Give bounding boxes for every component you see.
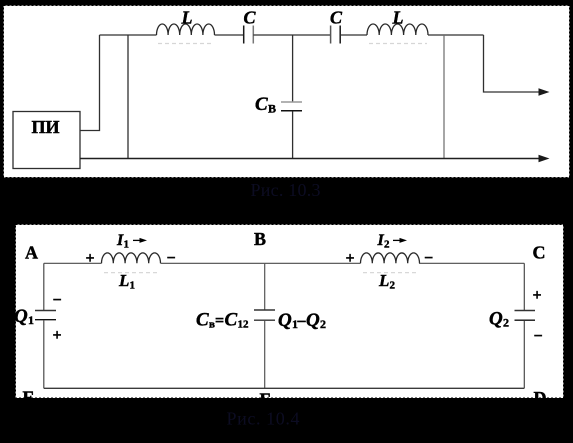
- wire: [340, 34, 367, 36]
- loop top wire left of L1: [44, 262, 102, 264]
- ghost dashes under L (first): [158, 43, 214, 45]
- arrowhead lower output: [539, 155, 550, 162]
- svg-text:C: C: [533, 243, 546, 263]
- loop left wire lower: [43, 320, 45, 388]
- svg-text:A: A: [25, 243, 38, 263]
- svg-text:Q: Q: [306, 310, 320, 331]
- svg-text:Рис. 10.4: Рис. 10.4: [227, 409, 300, 429]
- output upper wire: [484, 35, 541, 92]
- svg-text:2: 2: [503, 316, 509, 330]
- svg-text:Q: Q: [489, 309, 503, 330]
- left shunt wire: [127, 35, 129, 159]
- svg-text:12: 12: [238, 319, 250, 331]
- inductor L1: [102, 253, 161, 263]
- svg-text:–: –: [297, 312, 307, 329]
- loop right wire lower: [523, 321, 525, 389]
- loop right wire upper: [523, 263, 525, 310]
- capacitor C (second): [330, 26, 332, 44]
- svg-text:Q: Q: [278, 310, 292, 331]
- svg-text:+: +: [52, 327, 61, 344]
- current I2 arrow: [393, 239, 403, 241]
- svg-text:ПИ: ПИ: [31, 117, 59, 137]
- svg-text:1: 1: [124, 239, 130, 251]
- top rail left segment: [100, 34, 157, 36]
- capacitor Q2 plates: [515, 310, 536, 312]
- figure 10.3 canvas: [4, 6, 570, 178]
- svg-text:=: =: [215, 313, 224, 330]
- svg-text:+: +: [345, 250, 354, 267]
- middle wire lower: [264, 321, 266, 389]
- capacitor Q1 plates: [35, 310, 56, 312]
- svg-text:C: C: [196, 310, 209, 331]
- svg-text:F: F: [260, 390, 271, 410]
- svg-text:2: 2: [320, 317, 326, 331]
- svg-text:L: L: [118, 271, 129, 290]
- node junction wire down to Cв: [292, 35, 294, 102]
- svg-text:2: 2: [384, 239, 390, 251]
- svg-text:L: L: [181, 8, 193, 28]
- loop top wire L1 to B: [161, 262, 265, 264]
- box ПИ: [13, 112, 80, 169]
- svg-text:C: C: [225, 310, 238, 331]
- svg-text:В: В: [268, 102, 276, 116]
- svg-text:−: −: [52, 292, 61, 309]
- svg-text:2: 2: [390, 280, 396, 292]
- svg-text:E: E: [22, 388, 34, 408]
- capacitor C (first): [243, 26, 245, 44]
- svg-text:−: −: [166, 250, 175, 267]
- svg-text:C: C: [243, 8, 256, 28]
- svg-text:L: L: [378, 271, 389, 290]
- inductor L (second): [367, 24, 428, 35]
- ghost dashes under L2: [363, 272, 417, 274]
- svg-text:C: C: [255, 94, 268, 115]
- current I1 arrow: [133, 239, 143, 241]
- ghost dashes under L (second): [369, 43, 427, 45]
- svg-text:−: −: [533, 328, 542, 345]
- svg-text:B: B: [254, 229, 266, 249]
- loop top wire B to L2: [265, 262, 361, 264]
- svg-text:1: 1: [130, 280, 136, 292]
- svg-text:L: L: [392, 8, 404, 28]
- wire: [215, 34, 244, 36]
- svg-text:+: +: [532, 287, 541, 304]
- right shunt wire: [443, 35, 445, 159]
- loop bottom wire: [44, 387, 525, 389]
- top rail right segment: [428, 34, 484, 36]
- svg-text:+: +: [85, 250, 94, 267]
- svg-text:−: −: [424, 250, 433, 267]
- wire from ПИ to top rail: [80, 35, 100, 131]
- inductor L (first): [157, 24, 215, 35]
- middle wire upper: [264, 263, 266, 309]
- arrowhead upper output: [539, 88, 550, 95]
- svg-text:D: D: [534, 388, 547, 408]
- wire: [253, 34, 330, 36]
- loop top wire right of L2: [419, 262, 524, 264]
- svg-text:Q: Q: [14, 306, 28, 327]
- bottom rail: [80, 158, 540, 160]
- wire Cв to bottom rail: [292, 111, 294, 158]
- inductor L2: [361, 253, 420, 263]
- svg-text:1: 1: [28, 313, 34, 327]
- capacitor Cв plates: [281, 101, 302, 103]
- svg-text:Рис. 10.3: Рис. 10.3: [251, 180, 321, 200]
- loop left wire upper: [43, 263, 45, 310]
- figure 10.4 canvas: [16, 225, 564, 399]
- ghost dashes under L1: [104, 272, 158, 274]
- capacitor C12 plates: [254, 309, 275, 311]
- svg-text:C: C: [330, 8, 343, 28]
